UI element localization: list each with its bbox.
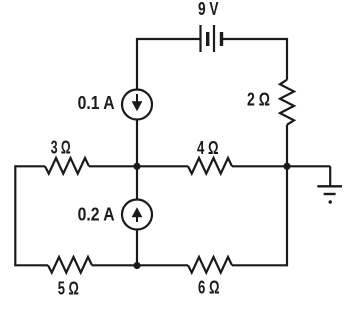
wire from I2 to bottom node bbox=[136, 230, 138, 266]
svg-text:4 Ω: 4 Ω bbox=[197, 138, 219, 158]
current source I1 0.1A circle bbox=[122, 90, 152, 120]
battery V1 short plate left bbox=[206, 32, 209, 46]
wire bottom between 5 ohm and 6 ohm bbox=[92, 264, 188, 266]
node dot mid-right bbox=[283, 163, 290, 170]
wire right column below 2 ohm down to bottom wire bbox=[286, 125, 288, 267]
ground bar 2 bbox=[324, 193, 336, 195]
resistor 6 ohm zigzag bbox=[188, 257, 232, 273]
resistor 4 ohm zigzag bbox=[188, 158, 232, 174]
wire mid-right to right node and ground stub bbox=[232, 165, 330, 167]
wire top-left from battery to center column corner bbox=[137, 39, 201, 90]
node dot bottom-center bbox=[133, 262, 140, 269]
current source I2 0.2A circle bbox=[122, 200, 152, 230]
wire from I1 to mid node bbox=[136, 120, 138, 200]
arrow of I1 (down) head bbox=[132, 101, 143, 111]
wire mid-left stub bbox=[15, 165, 45, 167]
wire top-right from battery to right column bbox=[222, 39, 288, 80]
svg-text:0.1 A: 0.1 A bbox=[78, 93, 115, 113]
arrow of I2 (up) shaft bbox=[136, 216, 138, 222]
wire bottom-right bbox=[232, 264, 287, 266]
svg-text:9 V: 9 V bbox=[198, 0, 219, 19]
resistor 2 ohm vertical zigzag bbox=[280, 80, 294, 125]
wire ground drop bbox=[329, 166, 331, 186]
svg-text:3 Ω: 3 Ω bbox=[51, 137, 71, 157]
resistor 5 ohm zigzag bbox=[48, 257, 92, 273]
svg-text:2 Ω: 2 Ω bbox=[247, 89, 270, 109]
battery V1 short plate right bbox=[220, 32, 223, 46]
left column wire bbox=[14, 165, 16, 265]
svg-text:5 Ω: 5 Ω bbox=[58, 278, 79, 298]
ground bar 1 bbox=[317, 185, 342, 187]
battery V1 long plate right bbox=[213, 25, 215, 52]
wire mid between 3 ohm and 4 ohm bbox=[89, 165, 188, 167]
svg-text:6 Ω: 6 Ω bbox=[198, 278, 220, 298]
battery V1 long plate left bbox=[199, 25, 201, 52]
svg-text:0.2 A: 0.2 A bbox=[78, 204, 115, 224]
node dot mid-center bbox=[133, 163, 140, 170]
arrow of I1 (down) shaft bbox=[136, 94, 138, 104]
wire bottom-left stub bbox=[14, 264, 48, 266]
arrow of I2 (up) head bbox=[132, 207, 143, 217]
ground dot bbox=[329, 200, 332, 203]
resistor 3 ohm zigzag bbox=[45, 158, 89, 174]
